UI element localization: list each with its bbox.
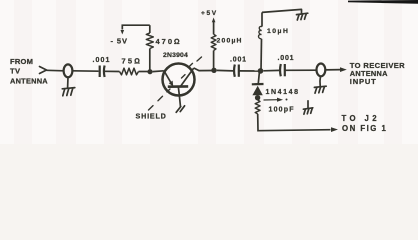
svg-text:200µH: 200µH [217,37,243,44]
ground [314,76,326,93]
wire [139,71,151,73]
node D junction [255,95,260,100]
node C junction [258,68,264,74]
svg-text:.001: .001 [93,57,111,64]
diode D1 1N4148 [252,84,300,102]
label TO RECEIVER ANTENNA INPUT [350,61,405,86]
svg-text:TV: TV [10,67,21,76]
shield leader (dashed) [149,57,202,110]
collector [181,68,194,86]
svg-text:ON FIG 1: ON FIG 1 [342,124,387,133]
svg-text:75Ω: 75Ω [122,57,143,66]
capacitor C1 .001 [93,57,111,77]
ground [62,77,75,96]
wire [194,68,214,71]
connector J1 [64,64,73,77]
svg-text:.001: .001 [278,55,295,62]
ground [297,9,308,20]
inductor L2 10µH [259,12,290,71]
svg-text:ANTENNA: ANTENNA [10,77,48,86]
svg-text:10µH: 10µH [267,28,289,35]
svg-text:- 5V: - 5V [111,37,128,46]
arrow from TV antenna [40,67,47,74]
wire [263,69,279,71]
choke L1 200µH [211,22,242,71]
svg-text:+5V: +5V [201,10,218,17]
capacitor C3 .001 [278,55,295,77]
transistor Q1 2N3904 [163,52,195,112]
svg-text:SHIELD: SHIELD [136,112,167,121]
capacitor C4 100pF [255,100,295,114]
wire [262,9,302,12]
wire [258,114,331,131]
wire [47,69,64,72]
annotation arrow [264,99,279,101]
wire [72,70,98,72]
emitter with arrow [164,71,172,85]
wire [217,69,233,72]
svg-text:1N4148: 1N4148 [266,89,300,96]
svg-text:470Ω: 470Ω [156,37,182,46]
node A junction [147,69,152,74]
scan edge artifact [348,0,418,4]
wire [122,25,150,29]
svg-text:100pF: 100pF [269,106,295,113]
wire [285,69,317,71]
base lead end hook [176,106,184,113]
wire [258,71,259,83]
svg-text:INPUT: INPUT [350,77,377,86]
capacitor C2 .001 [230,57,247,77]
svg-text:TO J2: TO J2 [342,114,381,123]
supply +5V [201,10,218,22]
svg-text:.001: .001 [230,57,247,64]
resistor R2 470Ω [146,25,181,71]
svg-text:FROM: FROM [10,57,33,66]
arrow to receiver [325,67,346,72]
wire [105,70,120,72]
node B junction [211,68,216,73]
svg-text:2N3904: 2N3904 [163,52,188,59]
base lead [178,87,180,107]
resistor R1 75Ω [120,57,143,75]
wire [153,70,164,73]
supply -5V [111,30,128,46]
label TO J2 ON FIG 1 [342,114,388,133]
connector J3 [317,64,326,77]
label FROM TV ANTENNA [10,57,48,86]
wire [239,70,258,72]
base bar [168,85,188,88]
ground [303,101,312,114]
